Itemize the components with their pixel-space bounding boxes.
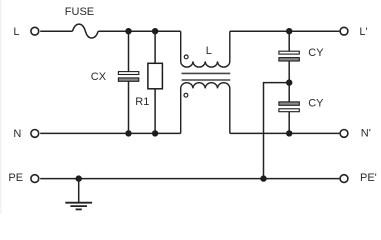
- wire L terminal to fuse: [40, 30, 72, 32]
- capacitor CX: [118, 72, 138, 82]
- wire midpoint to PE drop: [264, 83, 290, 179]
- wire N rail left: [40, 132, 181, 134]
- label N': [361, 128, 371, 140]
- inductor L choke top winding: [181, 31, 230, 67]
- svg-text:N: N: [13, 128, 21, 140]
- terminal N: [31, 130, 39, 138]
- resistor R1: [148, 63, 163, 89]
- wire CX bottom: [128, 81, 130, 133]
- capacitor CY1: [279, 51, 299, 61]
- label FUSE: [65, 6, 94, 18]
- wire PE rail: [40, 178, 339, 180]
- wire top rail right of choke: [230, 30, 340, 32]
- svg-text:N': N': [361, 128, 371, 140]
- svg-text:CY: CY: [308, 98, 324, 110]
- label CY (bottom): [308, 98, 324, 110]
- label N: [13, 128, 21, 140]
- page edge shading: [0, 0, 2, 214]
- inductor L choke bottom winding: [181, 83, 230, 134]
- terminal PE': [340, 175, 348, 183]
- wire N rail right of choke: [230, 132, 340, 134]
- wire CY1 top: [288, 31, 290, 51]
- label PE': [360, 172, 377, 184]
- wire midpoint to CY2: [288, 83, 290, 102]
- junction N rail / R1: [152, 130, 158, 136]
- ground: [65, 179, 92, 210]
- label R1: [135, 96, 149, 108]
- junction top rail / CX: [125, 28, 131, 34]
- terminal L: [31, 27, 39, 35]
- terminal N': [340, 130, 348, 138]
- label L (choke): [206, 45, 212, 57]
- junction top rail / R1: [152, 28, 158, 34]
- wire CY2 bottom: [288, 112, 290, 134]
- fuse FUSE: [73, 24, 99, 38]
- svg-text:L': L': [359, 26, 367, 38]
- junction N rail / CX: [125, 130, 131, 136]
- svg-text:R1: R1: [135, 96, 149, 108]
- svg-text:PE: PE: [8, 172, 23, 184]
- junction top rail / CY1: [286, 28, 292, 34]
- svg-text:CY: CY: [308, 47, 324, 59]
- svg-text:L: L: [13, 26, 19, 38]
- label CX: [91, 71, 107, 83]
- wire CX top: [128, 31, 130, 71]
- junction PE / CY midpoint drop: [260, 175, 266, 181]
- label PE: [8, 172, 23, 184]
- junction N rail / CY2: [286, 130, 292, 136]
- junction PE / ground: [76, 175, 82, 181]
- svg-text:L: L: [206, 45, 212, 57]
- svg-text:CX: CX: [91, 71, 107, 83]
- capacitor CY2: [279, 102, 299, 112]
- wire R1 bottom: [154, 89, 156, 134]
- label L: [13, 26, 19, 38]
- wire fuse to choke (top rail): [98, 30, 181, 32]
- junction CY midpoint: [286, 79, 292, 85]
- label L': [359, 26, 367, 38]
- terminal PE: [31, 175, 39, 183]
- choke core lines: [182, 73, 231, 80]
- terminal L': [340, 27, 348, 35]
- svg-text:PE': PE': [360, 172, 377, 184]
- wire R1 top: [154, 31, 156, 63]
- svg-text:FUSE: FUSE: [65, 6, 94, 18]
- wire CY1 bottom to midpoint: [288, 61, 290, 83]
- label CY (top): [308, 47, 324, 59]
